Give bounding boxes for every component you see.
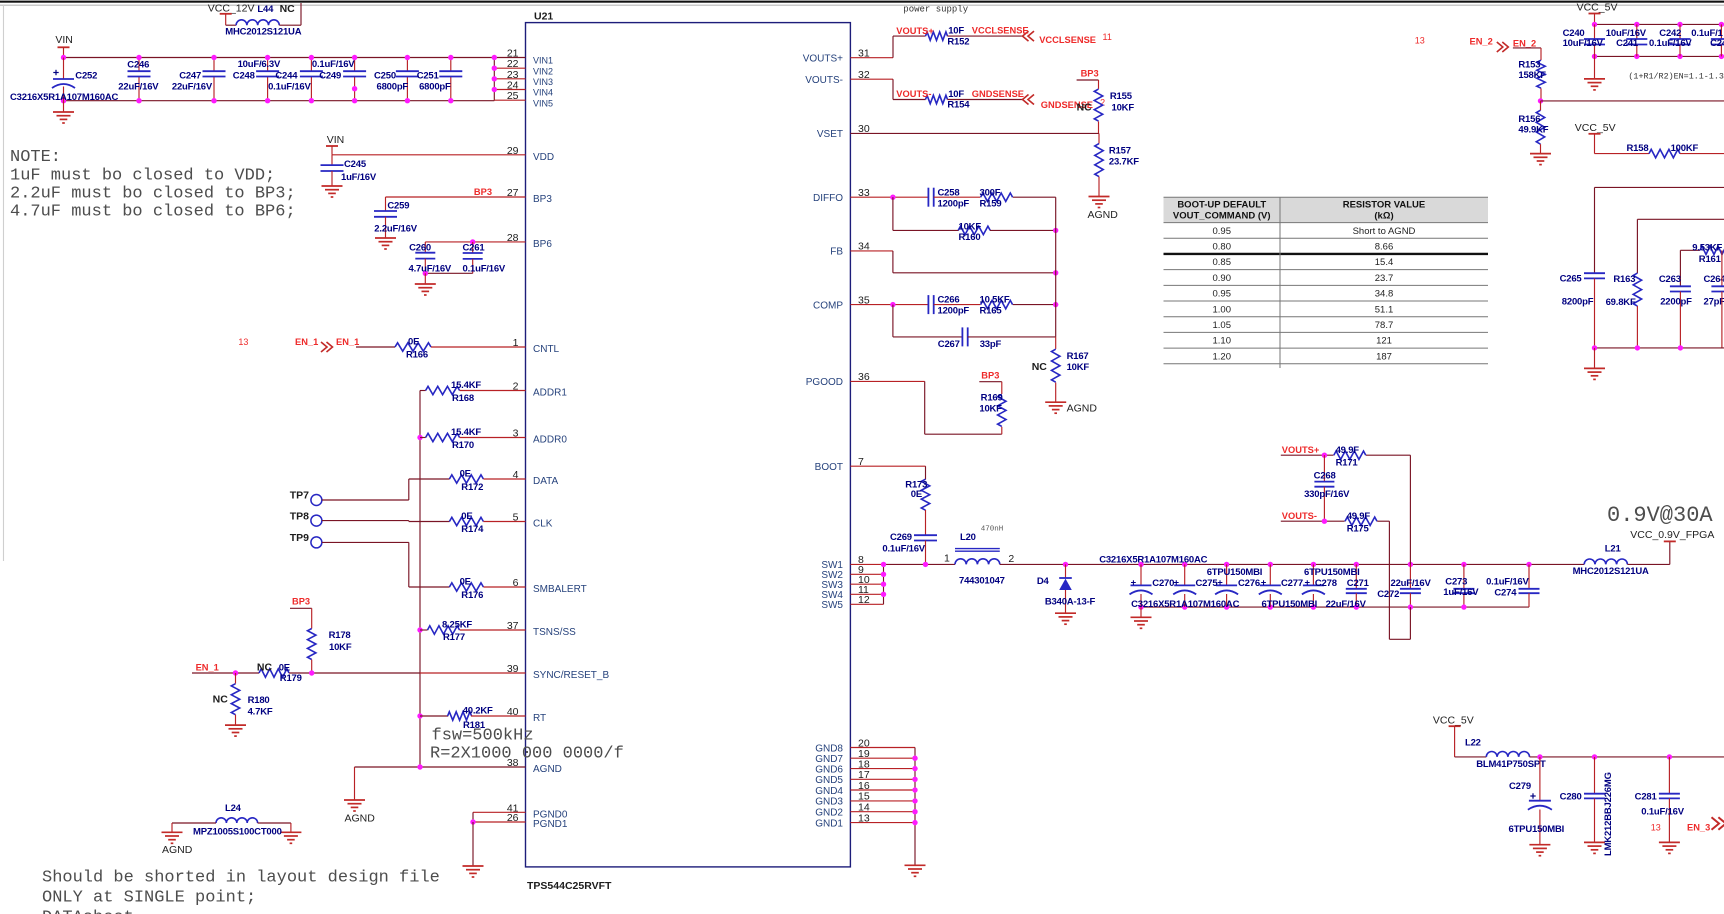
svg-text:0.9V@30A: 0.9V@30A bbox=[1607, 503, 1713, 528]
svg-text:15.4KF: 15.4KF bbox=[451, 380, 481, 391]
svg-text:23.7KF: 23.7KF bbox=[1109, 157, 1139, 168]
svg-text:6TPU150MBI: 6TPU150MBI bbox=[1262, 599, 1318, 610]
svg-text:C279: C279 bbox=[1509, 781, 1531, 792]
svg-text:B340A-13-F: B340A-13-F bbox=[1045, 597, 1096, 608]
svg-text:LMK212BBJ226MG: LMK212BBJ226MG bbox=[1603, 772, 1614, 856]
svg-text:C280: C280 bbox=[1560, 792, 1582, 803]
svg-text:TSNS/SS: TSNS/SS bbox=[533, 627, 576, 638]
svg-text:C259: C259 bbox=[387, 201, 409, 212]
svg-text:0.1uF/16V: 0.1uF/16V bbox=[882, 543, 925, 554]
svg-text:0.1uF/16V: 0.1uF/16V bbox=[1486, 576, 1529, 587]
svg-text:VIN: VIN bbox=[327, 134, 345, 146]
svg-text:C245: C245 bbox=[344, 159, 367, 170]
svg-text:10F: 10F bbox=[948, 89, 964, 100]
svg-text:187: 187 bbox=[1376, 351, 1392, 362]
svg-text:C261: C261 bbox=[463, 243, 486, 254]
svg-text:GND7: GND7 bbox=[815, 754, 843, 765]
svg-text:VIN1: VIN1 bbox=[533, 56, 553, 66]
svg-text:4.7uF must bo closed to BP6;: 4.7uF must bo closed to BP6; bbox=[10, 203, 296, 222]
svg-text:VCC_0.9V_FPGA: VCC_0.9V_FPGA bbox=[1630, 529, 1714, 541]
svg-text:C258: C258 bbox=[938, 187, 960, 198]
svg-text:R172: R172 bbox=[461, 482, 483, 493]
svg-text:13: 13 bbox=[1415, 36, 1425, 46]
svg-text:R163: R163 bbox=[1613, 274, 1635, 285]
svg-text:BP3: BP3 bbox=[981, 371, 999, 381]
svg-text:22uF/16V: 22uF/16V bbox=[1391, 578, 1432, 589]
svg-text:R155: R155 bbox=[1110, 91, 1133, 102]
svg-text:C274: C274 bbox=[1494, 588, 1517, 599]
svg-text:NC: NC bbox=[213, 694, 229, 706]
svg-text:+: + bbox=[1131, 577, 1137, 588]
svg-text:8.25KF: 8.25KF bbox=[442, 619, 472, 630]
svg-text:10uF/16V: 10uF/16V bbox=[1563, 38, 1604, 49]
svg-text:ADDR1: ADDR1 bbox=[533, 388, 567, 399]
svg-text:C260: C260 bbox=[409, 243, 431, 254]
svg-text:C263: C263 bbox=[1659, 274, 1681, 285]
svg-text:C275: C275 bbox=[1196, 578, 1219, 589]
svg-text:R179: R179 bbox=[280, 673, 302, 684]
svg-text:(1+R1/R2)EN=1.1-1.3: (1+R1/R2)EN=1.1-1.3 bbox=[1628, 71, 1724, 81]
svg-text:C264: C264 bbox=[1704, 274, 1724, 285]
svg-text:TP8: TP8 bbox=[290, 511, 309, 523]
svg-text:GNDSENSE: GNDSENSE bbox=[972, 89, 1024, 99]
svg-text:AGND: AGND bbox=[345, 813, 376, 825]
svg-text:10KF: 10KF bbox=[979, 403, 1002, 414]
svg-text:L24: L24 bbox=[225, 803, 242, 814]
svg-text:VOUTS+: VOUTS+ bbox=[896, 26, 934, 36]
svg-text:470nH: 470nH bbox=[981, 526, 1004, 534]
svg-text:EN_2: EN_2 bbox=[1470, 36, 1493, 46]
svg-text:0E: 0E bbox=[460, 469, 471, 480]
svg-text:VDD: VDD bbox=[533, 152, 554, 163]
svg-text:6TPU150MBI: 6TPU150MBI bbox=[1304, 567, 1360, 578]
svg-text:DATAsheet: DATAsheet bbox=[42, 909, 134, 914]
svg-text:0.1uF/16V: 0.1uF/16V bbox=[463, 264, 506, 275]
svg-text:0.95: 0.95 bbox=[1213, 226, 1232, 237]
svg-text:R167: R167 bbox=[1067, 351, 1089, 362]
svg-text:+: + bbox=[1174, 577, 1180, 588]
svg-text:10KF: 10KF bbox=[1112, 103, 1135, 114]
svg-text:SMBALERT: SMBALERT bbox=[533, 584, 587, 595]
svg-text:DIFFO: DIFFO bbox=[813, 193, 843, 204]
svg-text:BP3: BP3 bbox=[1081, 69, 1099, 79]
svg-text:34.8: 34.8 bbox=[1375, 289, 1394, 300]
svg-text:R180: R180 bbox=[248, 695, 270, 706]
svg-text:BP3: BP3 bbox=[292, 596, 310, 606]
svg-text:BLM41P750SPT: BLM41P750SPT bbox=[1476, 759, 1546, 770]
svg-text:CLK: CLK bbox=[533, 519, 553, 530]
svg-text:6TPU150MBI: 6TPU150MBI bbox=[1509, 824, 1565, 835]
svg-text:8200pF: 8200pF bbox=[1562, 297, 1594, 308]
svg-text:9.53KF: 9.53KF bbox=[1692, 243, 1722, 254]
svg-text:VIN2: VIN2 bbox=[533, 66, 553, 76]
svg-text:0E: 0E bbox=[911, 489, 922, 500]
svg-text:EN_1: EN_1 bbox=[336, 337, 359, 347]
svg-text:TPS544C25RVFT: TPS544C25RVFT bbox=[527, 880, 612, 892]
svg-text:GND2: GND2 bbox=[815, 808, 843, 819]
svg-text:VIN5: VIN5 bbox=[533, 98, 553, 108]
svg-text:2.2uF/16V: 2.2uF/16V bbox=[374, 224, 417, 235]
svg-text:C278: C278 bbox=[1315, 578, 1337, 589]
svg-text:0.1uF/16V: 0.1uF/16V bbox=[312, 59, 355, 70]
svg-text:CNTL: CNTL bbox=[533, 344, 560, 355]
svg-text:GND5: GND5 bbox=[815, 775, 843, 786]
svg-text:100KF: 100KF bbox=[1671, 143, 1699, 154]
svg-text:4.7KF: 4.7KF bbox=[248, 706, 273, 717]
svg-text:10KF: 10KF bbox=[329, 642, 352, 653]
svg-text:13: 13 bbox=[238, 337, 248, 347]
svg-text:AGND: AGND bbox=[533, 764, 562, 775]
svg-text:49.9F: 49.9F bbox=[1336, 445, 1360, 456]
svg-text:C3216X5R1A107M160AC: C3216X5R1A107M160AC bbox=[1131, 599, 1239, 610]
svg-text:2: 2 bbox=[1008, 553, 1014, 565]
svg-text:C3216X5R1A107M160AC: C3216X5R1A107M160AC bbox=[1099, 554, 1207, 565]
svg-text:DATA: DATA bbox=[533, 476, 559, 487]
svg-text:NC: NC bbox=[1032, 361, 1048, 373]
svg-text:NC: NC bbox=[280, 3, 296, 15]
svg-text:R176: R176 bbox=[461, 590, 483, 601]
svg-text:R152: R152 bbox=[947, 36, 969, 47]
svg-text:(kΩ): (kΩ) bbox=[1374, 211, 1393, 222]
svg-text:8.66: 8.66 bbox=[1375, 241, 1394, 252]
svg-text:10KF: 10KF bbox=[959, 221, 982, 232]
svg-text:MPZ1005S100CT000: MPZ1005S100CT000 bbox=[193, 827, 282, 838]
svg-text:78.7: 78.7 bbox=[1375, 320, 1394, 331]
svg-text:C271: C271 bbox=[1347, 578, 1370, 589]
svg-text:VCC_5V: VCC_5V bbox=[1575, 122, 1616, 134]
svg-text:RT: RT bbox=[533, 713, 546, 724]
svg-text:ADDR0: ADDR0 bbox=[533, 435, 567, 446]
svg-text:C250: C250 bbox=[374, 71, 396, 82]
svg-text:EN_1: EN_1 bbox=[196, 662, 219, 672]
svg-text:49.9F: 49.9F bbox=[1347, 511, 1371, 522]
svg-text:13: 13 bbox=[1651, 823, 1661, 833]
svg-text:49.9KF: 49.9KF bbox=[1518, 125, 1548, 136]
svg-text:744301047: 744301047 bbox=[959, 576, 1005, 587]
svg-text:AGND: AGND bbox=[162, 844, 193, 856]
svg-text:R156: R156 bbox=[1518, 114, 1540, 125]
svg-text:VOUT_COMMAND (V): VOUT_COMMAND (V) bbox=[1173, 211, 1271, 222]
svg-text:R170: R170 bbox=[452, 440, 474, 451]
svg-text:C252: C252 bbox=[75, 71, 97, 82]
svg-text:2200pF: 2200pF bbox=[1660, 297, 1692, 308]
svg-text:0.80: 0.80 bbox=[1213, 241, 1232, 252]
svg-text:1uF/16V: 1uF/16V bbox=[341, 172, 377, 183]
svg-text:1.10: 1.10 bbox=[1213, 336, 1232, 347]
svg-text:GND1: GND1 bbox=[815, 818, 843, 829]
svg-text:VIN3: VIN3 bbox=[533, 77, 553, 87]
svg-text:0E: 0E bbox=[408, 337, 419, 348]
svg-text:C277: C277 bbox=[1281, 578, 1303, 589]
svg-text:FB: FB bbox=[830, 247, 843, 258]
svg-text:C268: C268 bbox=[1314, 471, 1336, 482]
svg-text:1.05: 1.05 bbox=[1213, 320, 1232, 331]
svg-text:C267: C267 bbox=[938, 339, 960, 350]
svg-text:51.1: 51.1 bbox=[1375, 304, 1394, 315]
svg-text:6800pF: 6800pF bbox=[377, 82, 409, 93]
svg-text:R157: R157 bbox=[1109, 145, 1131, 156]
svg-text:NOTE:: NOTE: bbox=[10, 148, 61, 167]
svg-text:C270: C270 bbox=[1152, 578, 1174, 589]
svg-text:C244: C244 bbox=[275, 71, 298, 82]
svg-text:6TPU150MBI: 6TPU150MBI bbox=[1207, 567, 1263, 578]
svg-text:0E: 0E bbox=[461, 511, 472, 522]
svg-text:TP7: TP7 bbox=[290, 490, 309, 502]
svg-text:+: + bbox=[1305, 577, 1311, 588]
svg-text:330pF/16V: 330pF/16V bbox=[1304, 489, 1350, 500]
svg-text:0E: 0E bbox=[460, 577, 471, 588]
svg-text:AGND: AGND bbox=[1088, 209, 1119, 221]
svg-text:C272: C272 bbox=[1377, 589, 1399, 600]
svg-text:C241: C241 bbox=[1616, 38, 1639, 49]
svg-text:22uF/16V: 22uF/16V bbox=[172, 82, 213, 93]
svg-text:U21: U21 bbox=[534, 11, 553, 23]
svg-text:15.4KF: 15.4KF bbox=[451, 427, 481, 438]
svg-text:C248: C248 bbox=[233, 71, 255, 82]
svg-text:VOUTS-: VOUTS- bbox=[1282, 511, 1317, 521]
svg-text:22uF/16V: 22uF/16V bbox=[118, 82, 159, 93]
svg-text:R160: R160 bbox=[959, 232, 981, 243]
svg-text:1200pF: 1200pF bbox=[938, 306, 970, 317]
svg-text:23.7: 23.7 bbox=[1375, 273, 1394, 284]
svg-text:NC: NC bbox=[257, 661, 273, 673]
svg-text:C273: C273 bbox=[1445, 576, 1467, 587]
svg-text:R168: R168 bbox=[452, 393, 474, 404]
svg-text:EN_3: EN_3 bbox=[1687, 823, 1710, 833]
svg-text:158KF: 158KF bbox=[1518, 70, 1546, 81]
svg-text:L22: L22 bbox=[1465, 738, 1481, 749]
svg-text:300F: 300F bbox=[980, 187, 1001, 198]
svg-text:0.90: 0.90 bbox=[1213, 273, 1232, 284]
svg-text:VIN4: VIN4 bbox=[533, 88, 553, 98]
svg-text:D4: D4 bbox=[1037, 576, 1050, 587]
svg-text:BP3: BP3 bbox=[533, 194, 552, 205]
svg-text:RESISTOR VALUE: RESISTOR VALUE bbox=[1343, 200, 1426, 211]
svg-text:VCC_5V: VCC_5V bbox=[1433, 715, 1474, 727]
svg-text:GND6: GND6 bbox=[815, 764, 843, 775]
svg-text:Should be shorted in layout de: Should be shorted in layout design file bbox=[42, 869, 440, 888]
svg-text:6800pF: 6800pF bbox=[419, 82, 451, 93]
svg-text:1.20: 1.20 bbox=[1213, 351, 1232, 362]
svg-text:GND8: GND8 bbox=[815, 743, 843, 754]
svg-text:R171: R171 bbox=[1336, 458, 1359, 469]
svg-text:121: 121 bbox=[1376, 336, 1392, 347]
svg-text:VOUTS-: VOUTS- bbox=[805, 75, 843, 86]
svg-text:GND4: GND4 bbox=[815, 786, 843, 797]
svg-text:R175: R175 bbox=[1347, 524, 1370, 535]
svg-text:NC: NC bbox=[1077, 102, 1093, 114]
svg-text:VOUTS+: VOUTS+ bbox=[1282, 445, 1320, 455]
svg-text:0.85: 0.85 bbox=[1213, 257, 1232, 268]
svg-text:AGND: AGND bbox=[1067, 403, 1098, 415]
svg-text:GND3: GND3 bbox=[815, 797, 843, 808]
svg-text:EN_1: EN_1 bbox=[295, 337, 318, 347]
svg-text:1: 1 bbox=[944, 553, 950, 565]
svg-text:1200pF: 1200pF bbox=[938, 198, 970, 209]
svg-text:L44: L44 bbox=[257, 4, 274, 15]
svg-text:C276: C276 bbox=[1238, 578, 1260, 589]
svg-text:VIN: VIN bbox=[55, 34, 73, 46]
svg-text:VOUTS+: VOUTS+ bbox=[803, 54, 843, 65]
svg-text:R165: R165 bbox=[980, 306, 1003, 317]
svg-text:C3216X5R1A107M160AC: C3216X5R1A107M160AC bbox=[10, 92, 118, 103]
svg-text:22uF/16V: 22uF/16V bbox=[1326, 599, 1367, 610]
svg-text:VCC_12V: VCC_12V bbox=[208, 3, 255, 15]
svg-text:2.2uF must bo closed to BP3;: 2.2uF must bo closed to BP3; bbox=[10, 185, 296, 204]
svg-text:VCC_5V: VCC_5V bbox=[1577, 2, 1618, 14]
svg-text:40.2KF: 40.2KF bbox=[463, 705, 493, 716]
svg-text:BP3: BP3 bbox=[474, 187, 492, 197]
svg-text:11: 11 bbox=[1103, 32, 1112, 42]
svg-text:R=2X1000 000 0000/f: R=2X1000 000 0000/f bbox=[430, 745, 624, 764]
svg-text:C246: C246 bbox=[127, 60, 149, 71]
svg-text:C265: C265 bbox=[1560, 274, 1583, 285]
svg-text:COMP: COMP bbox=[813, 300, 843, 311]
svg-text:ONLY at SINGLE point;: ONLY at SINGLE point; bbox=[42, 889, 256, 908]
svg-text:0.1uF/16V: 0.1uF/16V bbox=[1649, 38, 1692, 49]
svg-text:R174: R174 bbox=[461, 524, 484, 535]
svg-text:R166: R166 bbox=[406, 350, 428, 361]
svg-text:R178: R178 bbox=[329, 630, 351, 641]
svg-text:10F: 10F bbox=[948, 26, 964, 37]
svg-text:VOUTS-: VOUTS- bbox=[896, 89, 931, 99]
svg-text:VCCLSENSE: VCCLSENSE bbox=[972, 26, 1029, 36]
svg-text:EN_2: EN_2 bbox=[1513, 38, 1536, 48]
svg-text:power supply: power supply bbox=[903, 5, 968, 15]
svg-text:C266: C266 bbox=[938, 295, 960, 306]
svg-text:4.7uF/16V: 4.7uF/16V bbox=[409, 264, 452, 275]
svg-text:0E: 0E bbox=[279, 662, 290, 673]
svg-text:PGND1: PGND1 bbox=[533, 819, 568, 830]
svg-text:BOOT: BOOT bbox=[815, 462, 843, 473]
svg-text:VCCLSENSE: VCCLSENSE bbox=[1039, 35, 1096, 45]
svg-text:R154: R154 bbox=[947, 100, 970, 111]
svg-text:BOOT-UP DEFAULT: BOOT-UP DEFAULT bbox=[1177, 200, 1266, 211]
svg-text:1.00: 1.00 bbox=[1213, 304, 1232, 315]
svg-text:33pF: 33pF bbox=[980, 339, 1002, 350]
svg-text:Short to AGND: Short to AGND bbox=[1353, 226, 1416, 237]
svg-text:C247: C247 bbox=[179, 71, 201, 82]
svg-text:R169: R169 bbox=[981, 393, 1003, 404]
svg-text:SYNC/RESET_B: SYNC/RESET_B bbox=[533, 670, 609, 681]
svg-text:MHC2012S121UA: MHC2012S121UA bbox=[225, 27, 301, 38]
svg-text:R153: R153 bbox=[1518, 60, 1540, 71]
svg-text:R159: R159 bbox=[980, 198, 1002, 209]
svg-text:C243: C243 bbox=[1710, 38, 1724, 49]
svg-text:R161: R161 bbox=[1699, 254, 1722, 265]
svg-text:27pF/: 27pF/ bbox=[1704, 297, 1724, 308]
svg-text:PGOOD: PGOOD bbox=[806, 377, 843, 388]
svg-text:BP6: BP6 bbox=[533, 239, 552, 250]
svg-text:+: + bbox=[1261, 577, 1267, 588]
svg-text:SW5: SW5 bbox=[821, 600, 843, 611]
svg-text:C251: C251 bbox=[417, 71, 440, 82]
svg-text:10KF: 10KF bbox=[1067, 362, 1090, 373]
svg-text:+: + bbox=[1217, 577, 1223, 588]
svg-text:L21: L21 bbox=[1605, 544, 1622, 555]
svg-text:1uF must bo closed to VDD;: 1uF must bo closed to VDD; bbox=[10, 167, 275, 186]
svg-text:C249: C249 bbox=[319, 71, 341, 82]
svg-text:VSET: VSET bbox=[817, 129, 843, 140]
svg-text:R158: R158 bbox=[1627, 143, 1649, 154]
svg-text:MHC2012S121UA: MHC2012S121UA bbox=[1573, 566, 1649, 577]
svg-text:fsw=500kHz: fsw=500kHz bbox=[432, 727, 534, 746]
svg-text:0.95: 0.95 bbox=[1213, 289, 1232, 300]
svg-text:69.8KF: 69.8KF bbox=[1606, 297, 1636, 308]
svg-text:1uF/16V: 1uF/16V bbox=[1443, 587, 1479, 598]
svg-text:R177: R177 bbox=[443, 632, 465, 643]
svg-text:C281: C281 bbox=[1635, 792, 1658, 803]
svg-text:0.1uF/16V: 0.1uF/16V bbox=[1641, 806, 1684, 817]
svg-text:0.1uF/16V: 0.1uF/16V bbox=[268, 82, 311, 93]
svg-text:L20: L20 bbox=[960, 532, 976, 543]
svg-text:10.5KF: 10.5KF bbox=[980, 295, 1010, 306]
svg-text:15.4: 15.4 bbox=[1375, 257, 1394, 268]
svg-text:C269: C269 bbox=[890, 532, 912, 543]
svg-text:10uF/6.3V: 10uF/6.3V bbox=[238, 59, 281, 70]
svg-text:TP9: TP9 bbox=[290, 532, 309, 544]
